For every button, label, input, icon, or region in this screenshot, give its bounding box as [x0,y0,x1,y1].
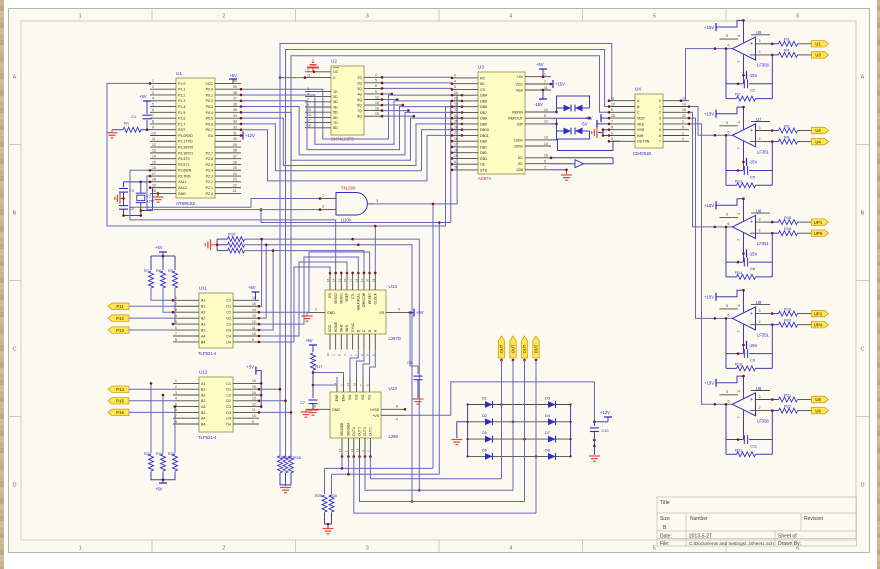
svg-text:D3: D3 [226,411,231,415]
svg-text:UP1: UP1 [814,220,823,225]
svg-text:+: + [750,128,753,134]
svg-text:DB7: DB7 [480,111,487,115]
svg-text:13: 13 [356,448,360,452]
svg-text:Date:: Date: [660,533,672,539]
svg-text:40: 40 [233,79,237,83]
svg-text:D7: D7 [545,431,550,435]
svg-text:+5V: +5V [155,245,163,250]
svg-text:5: 5 [659,128,661,132]
svg-text:SENS1: SENS1 [340,293,344,304]
driver U13 L298 [330,392,381,438]
svg-text:+VS: +VS [372,414,379,418]
svg-text:11: 11 [611,97,615,101]
svg-text:18: 18 [152,178,156,182]
resistor R16 [750,232,772,234]
svg-text:4: 4 [737,213,741,215]
svg-text:R21: R21 [784,392,792,397]
svg-text:5D: 5D [333,111,338,115]
svg-text:2: 2 [322,205,324,209]
optocoupler U11 TLP521-4 [199,293,233,348]
svg-text:+12V: +12V [600,410,610,415]
svg-text:21: 21 [454,97,458,101]
port flag U2 [812,127,829,133]
diode D7 [548,436,556,443]
svg-text:1: 1 [79,14,82,20]
svg-text:DC: DC [518,156,524,160]
capacitor C6 [726,261,743,263]
svg-text:CTL: CTL [351,293,355,299]
svg-text:3: 3 [659,117,661,121]
ground at crystal [121,197,124,199]
svg-text:U3: U3 [478,65,484,70]
svg-text:+VSS: +VSS [370,408,380,412]
svg-text:BIP: BIP [517,122,523,126]
port flag P12 [108,315,129,321]
resistor R26 R27 R28 pulldowns [278,456,283,473]
svg-text:D6: D6 [482,448,487,452]
svg-text:B1: B1 [201,305,205,309]
svg-text:−: − [750,231,753,237]
svg-text:14: 14 [252,308,256,312]
svg-text:18: 18 [371,278,375,282]
svg-text:0: 0 [659,99,661,103]
diode D5 [485,436,493,443]
svg-text:P2.0: P2.0 [206,192,213,196]
svg-text:C8: C8 [407,361,412,365]
svg-text:C2: C2 [226,311,231,315]
svg-text:−: − [750,409,753,415]
power +15V at U8 [716,199,744,221]
svg-text:R15: R15 [784,215,792,220]
power +5V at U11 C1 [255,292,257,300]
svg-text:C5: C5 [750,174,756,179]
svg-text:5: 5 [726,390,728,394]
svg-text:A1: A1 [201,382,205,386]
svg-text:3: 3 [611,137,613,141]
svg-text:-15V: -15V [749,251,758,256]
svg-text:B4: B4 [201,340,205,344]
svg-text:16: 16 [152,166,156,170]
svg-text:R19: R19 [784,306,792,311]
svg-text:R13: R13 [735,178,743,183]
diode D3 [548,401,556,408]
svg-text:16: 16 [252,379,256,383]
svg-text:R26R27R28: R26R27R28 [281,456,301,460]
resistors R29 R30 sense to ground [341,457,343,469]
svg-text:6: 6 [360,354,364,356]
svg-text:A0: A0 [480,82,484,86]
svg-text:2: 2 [759,229,761,233]
resistor R18 feedback [726,367,737,369]
svg-text:7Q: 7Q [357,109,362,113]
svg-text:6: 6 [611,131,613,135]
svg-text:6: 6 [728,313,730,317]
svg-text:P2.3: P2.3 [206,174,213,178]
port flag U3 [812,52,829,58]
power -15V at U7 [746,158,748,166]
svg-text:7: 7 [152,114,154,118]
svg-text:TLP521-4: TLP521-4 [198,351,217,356]
svg-text:2: 2 [544,166,546,170]
svg-text:7: 7 [737,416,741,418]
microcontroller U1 AT89C52 [176,78,215,198]
svg-text:P1.1: P1.1 [178,88,185,92]
svg-text:R4: R4 [784,48,790,53]
svg-text:VSS: VSS [637,128,645,132]
svg-text:C: C [637,111,640,115]
resistor R2 feedback [726,98,737,100]
svg-text:13: 13 [152,149,156,153]
svg-text:9: 9 [396,404,398,408]
svg-text:D4: D4 [226,340,231,344]
port flag P11 [108,303,129,309]
optocoupler U12 TLP521-4 [199,377,233,432]
svg-text:R30: R30 [330,494,337,498]
svg-text:VS: VS [379,311,384,315]
svg-text:C3: C3 [226,405,231,409]
svg-text:16: 16 [326,352,330,356]
svg-text:D1: D1 [226,388,231,392]
diode D4 [548,418,556,425]
wire 10Vin to U4 OUT/IN [551,140,620,151]
wire feedback loop U5 [725,49,727,99]
svg-text:R1: R1 [124,121,130,126]
wire R10 R11 R12 to U14 and tall loop [245,239,420,490]
svg-text:+: + [750,311,753,317]
svg-text:U1: U1 [815,42,821,47]
svg-text:UP5: UP5 [814,231,823,236]
svg-text:OUT2: OUT2 [363,427,367,436]
wire feedback loop U7 [725,135,727,185]
wire bus U12 outputs to select verticals [259,388,280,390]
svg-text:OC: OC [333,70,339,74]
svg-text:25: 25 [454,120,458,124]
svg-text:B2: B2 [201,317,205,321]
svg-text:C: C [13,347,17,353]
svg-text:R10: R10 [228,232,236,237]
wire U11 D outputs up to R10 R11 R12 [259,239,262,306]
svg-text:7: 7 [544,80,546,84]
svg-text:2: 2 [222,546,225,552]
svg-text:6: 6 [340,384,344,386]
svg-text:CW/CCW: CW/CCW [362,292,366,307]
svg-text:2Q: 2Q [357,81,362,85]
svg-text:3: 3 [759,39,761,43]
power +15V at U9 [716,290,744,312]
ADC U3 AD974 [478,72,525,174]
wire bus P0 nest to U3 data pins [241,89,462,139]
svg-text:P1.5: P1.5 [178,111,185,115]
svg-text:6: 6 [728,399,730,403]
svg-text:SENS2: SENS2 [334,293,338,304]
ground at 12/8 pin [551,169,567,171]
svg-text:1D: 1D [333,90,338,94]
capacitor C4 [119,205,128,207]
wire from gate output [374,95,457,204]
resistor R6 [750,141,772,143]
svg-text:C2: C2 [226,393,231,397]
svg-text:R14: R14 [735,270,743,275]
svg-text:Title: Title [660,500,670,506]
svg-text:EN: EN [328,292,332,297]
svg-text:+5V: +5V [155,487,163,492]
svg-text:8: 8 [544,114,546,118]
svg-text:U13: U13 [389,386,398,391]
svg-text:OUT/IN: OUT/IN [637,140,650,144]
svg-text:7D: 7D [333,121,338,125]
svg-text:13: 13 [544,136,548,140]
svg-text:7: 7 [659,140,661,144]
svg-text:26: 26 [454,125,458,129]
svg-text:3: 3 [175,391,177,395]
port flag U1 [812,41,829,47]
svg-text:2: 2 [759,137,761,141]
svg-text:10: 10 [353,382,357,386]
diode D8 [548,453,556,460]
svg-text:Drawn By:: Drawn By: [778,541,801,547]
svg-text:R7: R7 [144,269,149,273]
resistor R19 [756,313,773,315]
svg-text:DB5: DB5 [480,99,487,103]
svg-text:IN4: IN4 [348,394,352,399]
resistor R4 [750,54,772,56]
svg-text:GND: GND [178,192,186,196]
power +5V at U14 VS [386,312,410,314]
svg-text:20Vin: 20Vin [514,144,523,148]
svg-text:P0.7: P0.7 [206,128,213,132]
op-amp U7 LF351 [732,124,755,147]
port flag UP5 [812,230,829,236]
svg-text:VEE: VEE [516,88,524,92]
svg-text:12: 12 [346,382,350,386]
port flag U8 [812,396,829,402]
svg-text:12: 12 [252,320,256,324]
svg-text:16: 16 [454,137,458,141]
power +12V at U1 EA pin [241,135,243,137]
svg-text:5: 5 [454,85,456,89]
svg-text:7: 7 [737,61,741,63]
svg-text:15: 15 [338,448,342,452]
svg-text:SENSEA: SENSEA [347,422,351,436]
svg-text:19: 19 [152,183,156,187]
svg-text:OUT1: OUT1 [369,427,373,436]
svg-text:4: 4 [454,79,456,83]
svg-text:LF356: LF356 [757,418,770,423]
svg-text:P15: P15 [116,399,124,404]
svg-text:U12: U12 [199,370,208,375]
port flag OUT2 [510,336,516,358]
svg-text:11: 11 [544,86,548,90]
svg-text:16: 16 [375,106,379,110]
power -15V at U3 VEE [542,90,544,99]
svg-text:14: 14 [252,391,256,395]
svg-text:4: 4 [659,122,661,126]
svg-text:DB6: DB6 [480,105,487,109]
svg-text:5: 5 [375,79,377,83]
svg-text:5: 5 [726,212,728,216]
port flag P16 [108,409,129,415]
svg-text:TLP521-4: TLP521-4 [198,435,217,440]
wire bus select lines A B C to U4 [280,44,612,457]
svg-text:REFIN: REFIN [512,110,523,114]
svg-text:10: 10 [252,414,256,418]
svg-text:+5V: +5V [248,285,256,290]
svg-text:DB0: DB0 [480,140,487,144]
svg-text:INH2: INH2 [340,324,344,332]
svg-text:1: 1 [349,354,353,356]
svg-text:DB8: DB8 [480,117,487,121]
wire staircase U14 to U11 outputs [259,267,330,342]
svg-text:14: 14 [152,154,156,158]
svg-text:3: 3 [366,14,369,20]
svg-text:P0.3: P0.3 [206,105,213,109]
svg-text:C: C [333,76,336,80]
svg-text:+5V: +5V [517,75,524,79]
svg-text:3: 3 [366,546,369,552]
svg-text:IN3: IN3 [355,394,359,399]
svg-text:C6: C6 [750,266,756,271]
svg-text:5: 5 [398,308,400,312]
wire U4 out2 to op-amp U8 [689,112,733,227]
svg-text:18: 18 [326,278,330,282]
svg-text:OUT: OUT [534,344,539,353]
svg-text:R20: R20 [784,318,792,323]
svg-text:B: B [861,211,865,217]
svg-text:+12V: +12V [245,133,255,138]
svg-text:5: 5 [366,384,370,386]
svg-text:R3: R3 [784,37,790,42]
svg-text:2D: 2D [333,95,338,99]
svg-text:AT89C52: AT89C52 [176,201,196,206]
port flag UP2 [812,310,829,316]
svg-text:C:\Documents and Settings\..\S: C:\Documents and Settings\..\Sheet1.Sch [689,541,774,546]
wire OUT columns through matrix [501,360,503,479]
wire U4 out1 to op-amp U7 [689,107,733,136]
svg-text:10: 10 [611,102,615,106]
svg-text:5: 5 [726,34,728,38]
svg-text:30: 30 [233,137,237,141]
port flag U9 [812,407,829,413]
svg-text:9: 9 [611,108,613,112]
svg-text:SENSEB: SENSEB [340,422,344,436]
svg-text:U2: U2 [815,128,821,133]
svg-text:6: 6 [796,14,799,20]
svg-text:+5V: +5V [585,116,593,121]
capacitor C5 [726,170,743,172]
svg-text:A: A [13,75,17,81]
svg-text:2: 2 [659,111,661,115]
title block [657,497,857,546]
port flag OUT4 [533,336,539,358]
svg-text:SOC: SOC [328,324,332,332]
resistor R31 feedback [726,453,737,455]
svg-text:R9: R9 [168,269,173,273]
svg-text:18: 18 [307,124,311,128]
svg-text:VCC: VCC [515,82,523,86]
svg-text:C2: C2 [750,88,756,93]
op-amp U6 LF356 [732,393,755,416]
svg-text:Size: Size [660,516,670,522]
svg-text:15: 15 [343,278,347,282]
port flag OUT1 [498,336,504,358]
svg-text:VCC: VCC [205,82,213,86]
svg-text:3: 3 [759,126,761,130]
svg-text:+15V: +15V [704,112,714,117]
svg-text:LF356: LF356 [757,63,770,68]
svg-text:-15V: -15V [534,102,543,107]
svg-text:17: 17 [307,118,311,122]
svg-text:28: 28 [454,166,458,170]
svg-text:2: 2 [682,131,684,135]
svg-text:5Q: 5Q [357,98,362,102]
svg-text:LF351: LF351 [757,332,770,337]
svg-text:U10A: U10A [341,218,352,223]
capacitor C3 [119,188,128,190]
svg-text:+: + [750,220,753,226]
svg-text:26: 26 [233,160,237,164]
svg-text:2: 2 [759,50,761,54]
svg-text:17: 17 [152,172,156,176]
svg-text:R2: R2 [735,92,741,97]
power +5V at U1 VCC [232,79,234,83]
svg-text:13: 13 [252,397,256,401]
svg-text:+15V: +15V [704,25,714,30]
svg-text:36: 36 [233,102,237,106]
svg-text:C1: C1 [226,299,231,303]
svg-text:L298: L298 [389,434,399,439]
op-amp U9 LF351 [732,307,755,330]
multiplexer U4 CD4051B [635,94,663,148]
svg-text:2: 2 [759,406,761,410]
svg-text:2: 2 [366,450,370,452]
svg-text:3: 3 [152,91,154,95]
svg-text:10Vin: 10Vin [514,138,523,142]
svg-text:LF351: LF351 [757,241,770,246]
svg-text:R6: R6 [784,134,790,139]
svg-text:B2: B2 [201,399,205,403]
svg-text:RC: RC [480,76,486,80]
svg-text:P3.6WR: P3.6WR [178,169,192,173]
svg-text:B3: B3 [201,411,205,415]
svg-text:39: 39 [233,85,237,89]
svg-text:9: 9 [375,90,377,94]
svg-text:U2: U2 [331,59,337,64]
resistor R14 feedback [726,276,737,278]
svg-text:LF351: LF351 [757,149,770,154]
svg-text:GND: GND [332,408,340,412]
svg-text:DB2: DB2 [480,151,487,155]
svg-text:U8: U8 [815,397,821,402]
wire feedback loop U6 [725,404,727,454]
svg-text:OUT: OUT [522,344,527,353]
svg-text:7: 7 [175,332,177,336]
svg-text:8: 8 [175,338,177,342]
svg-text:XAL2: XAL2 [178,186,187,190]
svg-text:C10: C10 [602,429,609,433]
resistor R17 chain with C7 [309,344,317,346]
svg-text:25: 25 [233,166,237,170]
capacitor C10 [593,422,595,426]
capacitor C9 [726,353,743,355]
svg-text:P11: P11 [116,304,124,309]
svg-text:OUT: OUT [499,344,504,353]
svg-text:13: 13 [337,278,341,282]
svg-text:24: 24 [454,114,458,118]
svg-text:R25: R25 [168,452,175,456]
power +15V at U7 [716,107,744,129]
svg-text:VEE: VEE [637,122,645,126]
svg-text:P2.1: P2.1 [206,186,213,190]
